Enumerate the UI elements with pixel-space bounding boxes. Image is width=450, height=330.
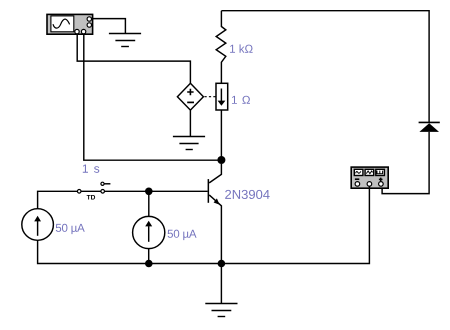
wire sensor to collector node xyxy=(220,110,222,160)
label 1 s xyxy=(83,164,99,172)
wire dependent source to ground xyxy=(189,110,191,136)
ground (bottom) xyxy=(205,304,237,317)
resistor R1 1k xyxy=(216,11,226,84)
current source I2 xyxy=(133,216,165,248)
transistor Q1 2N3904 xyxy=(208,164,222,264)
node junction at I2 bottom xyxy=(145,260,153,268)
wire top rail to diode xyxy=(221,11,429,122)
ground (top, near oscilloscope) xyxy=(109,34,141,47)
wire scope B terminal to collector node xyxy=(84,34,222,160)
function generator XFG1 xyxy=(351,167,388,188)
wire diode to function generator plus xyxy=(382,132,429,194)
node junction at I2 top xyxy=(145,188,153,196)
diode D1 xyxy=(419,122,440,131)
value label I2 50 uA xyxy=(168,230,197,240)
dashed control link xyxy=(205,96,216,98)
wire scope terminal to ground xyxy=(91,19,125,34)
current source I1 xyxy=(22,209,54,241)
wire ground rail (bottom) xyxy=(38,186,370,263)
node junction at collector xyxy=(217,156,225,164)
value label I1 50 uA xyxy=(56,224,85,234)
dependent source V1 (diamond) xyxy=(177,83,203,110)
value label 1 kohm xyxy=(230,44,253,52)
ground (below dependent source) xyxy=(173,137,205,150)
wire I2 top xyxy=(148,191,150,216)
node junction at emitter bottom xyxy=(218,260,226,268)
wire I1 top to switch rail xyxy=(38,191,208,208)
current sensor (1 ohm probe) xyxy=(216,83,228,110)
wire I2 bottom xyxy=(148,249,150,264)
part label 2N3904 xyxy=(225,190,270,199)
switch S1 (time delay) xyxy=(77,182,110,193)
value label 1 ohm xyxy=(232,96,250,104)
wire to bottom ground xyxy=(220,264,222,304)
wire scope A terminal to dependent source top xyxy=(77,34,190,84)
oscilloscope U1 body xyxy=(47,14,93,34)
label TD xyxy=(87,195,95,200)
